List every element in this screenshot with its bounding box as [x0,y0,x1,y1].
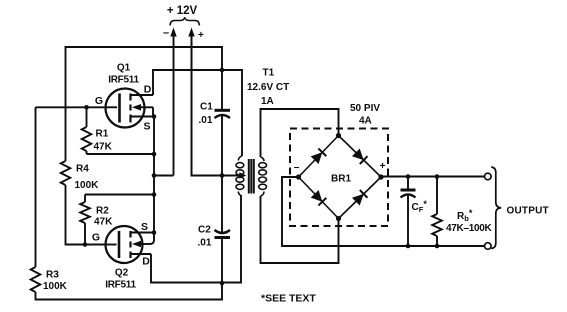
wire C1 branch [221,70,223,176]
brace supply [170,17,199,25]
node gate1 [84,105,89,110]
resistor R4 [61,161,71,185]
label 50 PIV [350,103,380,114]
bridge enclosure dashed box [290,129,388,227]
svg-text:Q1: Q1 [117,63,131,74]
wire Cf branch [407,177,409,247]
label R3 [46,270,59,281]
svg-text:50 PIV: 50 PIV [350,103,380,114]
node drain2/C2 junction [220,281,225,286]
terminal output bottom [485,243,492,250]
label R1 [96,129,109,140]
svg-text:D: D [142,256,150,268]
node drain1/C1 junction [220,68,225,73]
node R1 bottom [152,152,157,157]
node minus tap [152,173,157,178]
svg-text:.01: .01 [199,115,213,126]
label IRF511 Q1 [108,75,139,86]
wire Q1 drain to transformer primary top [153,70,242,156]
svg-text:S: S [143,121,150,133]
label 100K R4 [75,180,100,191]
svg-text:IRF511: IRF511 [108,75,139,86]
supply minus arrow [163,27,177,176]
node Rb bottom [435,244,440,249]
pin S Q2 [141,221,148,233]
svg-text:G: G [95,95,103,107]
label OUTPUT [507,206,549,217]
diode D1 [311,149,327,165]
svg-text:+: + [380,161,386,172]
svg-text:12.6V CT: 12.6V CT [247,82,289,93]
capacitor C1 [215,110,231,118]
label Q2 [115,268,129,279]
svg-text:IRF511: IRF511 [105,280,136,291]
transistor Q2 [106,226,155,263]
label 100K R3 [43,281,68,292]
resistor R3 [31,267,41,292]
wire bridge edge left-bottom [299,177,339,219]
label Q1 [117,63,131,74]
svg-text:C1: C1 [200,102,213,113]
node Rb top [435,174,440,179]
svg-text:C2: C2 [198,225,211,236]
wire plus supply to center tap [192,35,241,176]
label bridge minus [294,162,300,173]
pin D Q2 [142,256,150,268]
wire Q2 drain to transformer primary bottom [151,196,241,283]
svg-text:100K: 100K [75,180,100,191]
label C2 [198,225,211,236]
capacitor C2 [215,230,231,238]
svg-text:47K: 47K [94,217,113,228]
resistor Rb [432,177,442,247]
label .01 C1 [199,115,213,126]
pin G Q2 [92,232,100,244]
node Cf bottom [406,244,411,249]
svg-text:1A: 1A [261,96,274,107]
transformer T1 secondary winding [259,157,267,196]
wire bottom rail R3 to Q2 drain node [36,283,223,300]
resistor R1 [82,107,92,154]
svg-text:Q2: Q2 [115,268,129,279]
svg-text:R2: R2 [96,206,109,217]
label 4A [359,116,372,127]
svg-text:BR1: BR1 [331,174,351,185]
label 47K-100K [446,223,492,234]
svg-text:*SEE TEXT: *SEE TEXT [261,293,316,305]
svg-text:OUTPUT: OUTPUT [507,206,549,217]
label T1 [263,68,275,79]
wire bridge plus top rail [381,176,485,178]
wire Q1 gate [36,106,107,108]
wire bridge edge bottom-right [339,177,382,219]
brace output [491,167,501,249]
label R2 [96,206,109,217]
node bridge bottom [336,216,341,221]
wire R4 bottom to Q2 gate [66,185,107,245]
svg-text:+ 12V: + 12V [167,5,198,17]
supply plus arrow [188,28,204,176]
svg-text:.01: .01 [198,238,212,249]
label Rb [457,208,473,223]
note see text [261,293,316,305]
wire source rail [153,117,155,233]
node R2 top [152,192,157,197]
svg-text:–: – [294,162,300,173]
capacitor Cf [401,190,416,198]
label .01 C2 [198,238,212,249]
svg-text:4A: 4A [359,116,372,127]
wire C2 branch [221,176,223,284]
terminal output top [485,173,492,180]
node center tap junction [220,173,225,178]
svg-text:G: G [92,232,100,244]
transformer T1 center tap [239,172,246,178]
wire top rail Q1 drain to R4 [66,47,223,161]
svg-text:+: + [198,30,204,41]
node bridge left [296,174,301,179]
label Cf [412,199,428,214]
svg-text:T1: T1 [263,68,275,79]
label 1A [261,96,274,107]
wire source rail to minus supply [154,175,174,177]
node S1 [152,114,157,119]
svg-text:R3: R3 [46,270,59,281]
svg-text:100K: 100K [43,281,68,292]
pin G Q1 [95,95,103,107]
node gate2 [83,242,88,247]
svg-text:47K: 47K [94,142,113,153]
diode D3 [311,190,327,206]
node S2 [152,230,157,235]
label bridge plus [380,161,386,172]
svg-text:R4: R4 [76,164,89,175]
svg-text:R1: R1 [96,129,109,140]
wire bridge edge top-right [339,136,382,178]
wire secondary bottom to bridge AC bottom [261,196,339,263]
label 12.6V CT [247,82,289,93]
wire secondary top to bridge AC top [261,109,339,157]
diode D2 [352,149,368,165]
wire R1 to source rail [87,153,155,155]
svg-text:D: D [144,84,152,96]
label C1 [200,102,213,113]
wire bridge edge left-top [299,136,339,178]
wire R2 top to source rail [85,194,154,196]
transistor Q1 [106,89,154,128]
svg-text:S: S [141,221,148,233]
diode D4 [352,190,368,206]
label 47K R2 [94,217,113,228]
label BR1 [331,174,351,185]
wire bridge minus to bottom rail [282,177,485,246]
svg-text:47K–100K: 47K–100K [446,223,492,234]
resistor R2 [80,195,90,245]
pin S Q1 [143,121,150,133]
transformer T1 core [249,159,254,194]
node bridge right [378,174,383,179]
node Cf top [406,174,411,179]
svg-text:–: – [163,27,169,39]
label R4 [76,164,89,175]
transformer T1 primary winding [236,156,244,196]
wire Q1 gate down left side [35,107,37,267]
label IRF511 Q2 [105,280,136,291]
node bridge top [336,133,341,138]
supply label +12V [167,5,198,17]
pin D Q1 [144,84,152,96]
label 47K R1 [94,142,113,153]
